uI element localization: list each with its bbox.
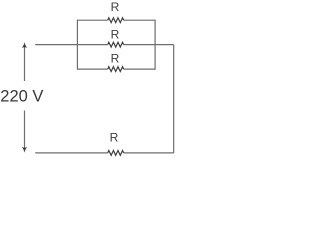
svg-text:R: R	[110, 130, 119, 144]
svg-text:R: R	[111, 0, 120, 14]
svg-text:R: R	[111, 27, 120, 41]
svg-text:R: R	[111, 51, 120, 65]
svg-text:220 V: 220 V	[0, 88, 43, 106]
